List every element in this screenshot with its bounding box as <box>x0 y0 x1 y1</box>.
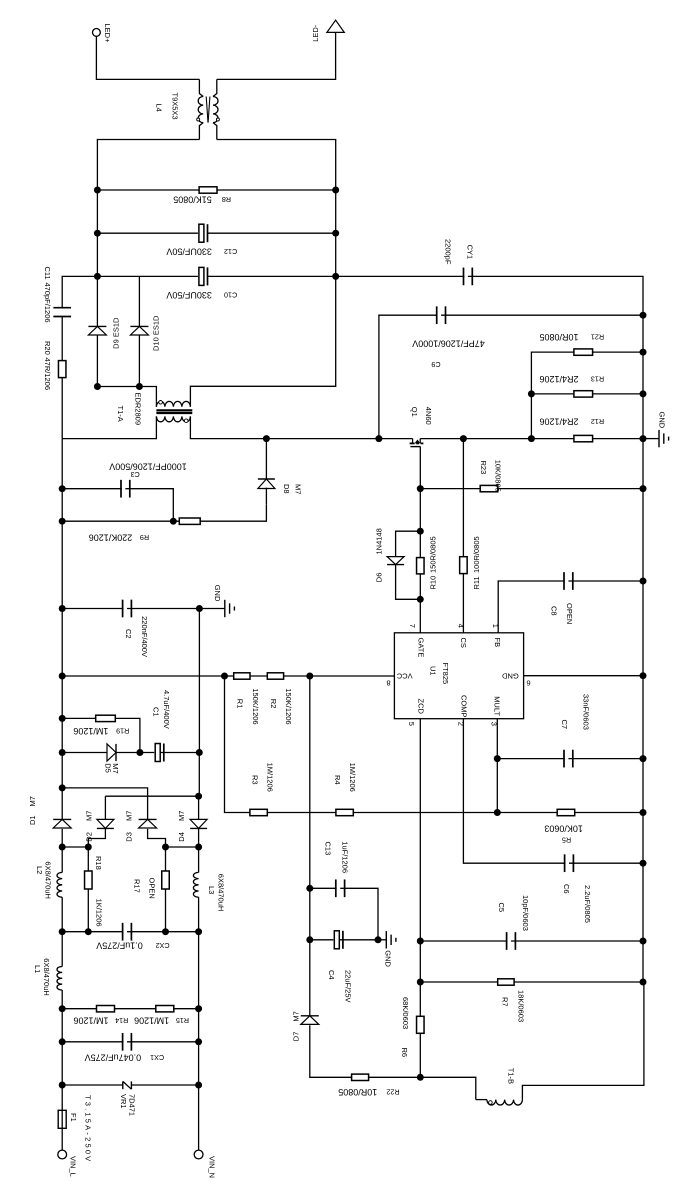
resistor R10 <box>417 558 425 574</box>
wire L2 bottom <box>61 897 63 932</box>
wire CX1 left <box>62 1041 127 1043</box>
wire N column seg2 <box>198 1009 200 1042</box>
wire L2 top <box>61 847 63 872</box>
junction <box>94 187 101 194</box>
junction <box>417 979 424 986</box>
svg-text:1K/1206: 1K/1206 <box>94 899 103 927</box>
wire left bus seg5 <box>61 609 63 677</box>
wire VR1 right <box>131 1084 198 1086</box>
wire D10 cathode <box>138 276 140 326</box>
wire gnd bus seg8 <box>642 863 644 941</box>
svg-text:R21: R21 <box>591 333 604 342</box>
wire gnd bus seg2 <box>642 439 644 489</box>
wire R13 left <box>531 393 574 395</box>
svg-text:CX2: CX2 <box>156 941 170 950</box>
wire R23 left <box>420 488 480 490</box>
wire right bus seg2 <box>335 233 337 276</box>
wire VCC column seg2 <box>309 888 311 940</box>
wire R14 left <box>62 1008 96 1010</box>
wire gnd bus seg7 <box>642 813 644 864</box>
wire C3 left <box>62 488 125 490</box>
svg-text:T1-B: T1-B <box>506 1068 515 1084</box>
polarized capacitor C4 <box>333 931 343 949</box>
svg-text:CX1: CX1 <box>150 1053 164 1062</box>
varistor VR1 <box>123 1081 132 1089</box>
wire gnd bus top <box>642 315 644 438</box>
svg-text:D6: D6 <box>375 573 384 583</box>
polarity dot T1-A primary <box>184 419 188 423</box>
wire T1-B lead <box>476 1099 487 1101</box>
resistor R15 <box>156 1006 174 1012</box>
svg-text:R3: R3 <box>251 775 260 785</box>
polarized capacitor C12 <box>198 224 208 242</box>
svg-text:L3: L3 <box>207 886 216 894</box>
svg-text:0.1uF/275V: 0.1uF/275V <box>96 941 143 951</box>
junction <box>59 605 66 612</box>
svg-text:6: 6 <box>526 678 530 687</box>
junction <box>306 936 313 943</box>
wire secondary left <box>97 387 156 402</box>
wire D7 cathode <box>309 940 311 1016</box>
wire L1 top <box>61 932 63 967</box>
wire LED- to L4 <box>217 32 336 79</box>
junction <box>196 605 203 612</box>
svg-text:4: 4 <box>457 624 466 628</box>
wire D6 top <box>396 531 421 556</box>
wire R1-R2 <box>250 675 267 677</box>
svg-text:C5: C5 <box>497 903 506 913</box>
resistor R7 <box>498 979 514 985</box>
svg-text:D3: D3 <box>125 832 134 842</box>
svg-text:D10 ES1D: D10 ES1D <box>152 315 161 351</box>
wire C4 right <box>340 939 378 941</box>
inductor L4 right winding <box>213 97 218 123</box>
svg-text:OPEN: OPEN <box>148 878 157 899</box>
svg-text:R5: R5 <box>562 836 571 845</box>
wire R8 right <box>217 189 336 191</box>
inductor L1 <box>57 967 62 991</box>
wire R18 top <box>87 847 89 871</box>
svg-text:330UF/50V: 330UF/50V <box>166 247 212 257</box>
diode D6 <box>387 557 404 565</box>
wire secondary right to bus <box>190 276 335 406</box>
wire R3 left <box>225 676 250 813</box>
svg-text:Q1: Q1 <box>410 407 419 417</box>
resistor R3 <box>250 809 267 815</box>
wire C1 right <box>160 752 199 754</box>
transformer T1-A primary winding <box>156 416 190 421</box>
wire VR1 left <box>62 1084 123 1086</box>
wire C5 right <box>511 940 643 942</box>
wire secondary left stub <box>155 401 157 407</box>
wire L4 to right output bus <box>217 140 336 191</box>
svg-text:5: 5 <box>407 722 416 726</box>
wire R19 left <box>62 717 95 719</box>
resistor R21 <box>574 349 593 355</box>
diode D1 <box>53 819 71 828</box>
capacitor C9 <box>437 306 446 324</box>
svg-text:6X8/470uH: 6X8/470uH <box>217 874 226 912</box>
terminal LED+ <box>93 29 101 37</box>
wire Q1 source rail <box>420 438 463 440</box>
wire L4 to left output bus <box>97 140 199 191</box>
svg-text:1M/1206: 1M/1206 <box>348 763 357 792</box>
inductor L3 <box>193 872 198 897</box>
svg-text:R15: R15 <box>176 1016 189 1025</box>
svg-text:VIN_N: VIN_N <box>208 1156 217 1178</box>
wire R22 right <box>369 1076 421 1078</box>
polarity dot L4 left <box>197 118 200 121</box>
junction <box>263 435 270 442</box>
svg-text:150K/1206: 150K/1206 <box>251 688 260 724</box>
core L4 <box>206 97 210 123</box>
wire gnd bus seg6 <box>642 759 644 813</box>
resistor R18 <box>85 871 93 889</box>
wire F1 column <box>61 1085 63 1150</box>
wire CX1 right <box>127 1041 199 1043</box>
junction <box>59 1082 66 1089</box>
wire R6 bottom <box>419 1033 421 1077</box>
wire C2 left <box>62 608 127 610</box>
capacitor C2 <box>123 600 132 618</box>
svg-text:M7: M7 <box>177 811 186 821</box>
svg-text:GND: GND <box>213 585 222 602</box>
junction <box>85 844 92 851</box>
svg-text:7: 7 <box>408 624 417 628</box>
svg-text:10K/0805: 10K/0805 <box>493 460 502 492</box>
junction <box>494 809 501 816</box>
svg-text:330UF/50V: 330UF/50V <box>166 290 212 300</box>
wire C9 left <box>379 315 441 438</box>
junction <box>136 383 143 390</box>
wire R18 bottom <box>87 889 89 932</box>
svg-text:4.7uF/400V: 4.7uF/400V <box>162 690 171 729</box>
svg-text:R11: R11 <box>472 576 481 589</box>
svg-text:VR1: VR1 <box>119 1094 128 1109</box>
svg-text:33nF/0603: 33nF/0603 <box>581 694 590 730</box>
polarity dot T1-B <box>489 1101 493 1105</box>
junction <box>640 755 647 762</box>
junction <box>417 1074 424 1081</box>
svg-text:R13: R13 <box>591 375 604 384</box>
wire R21 right <box>593 351 643 353</box>
wire GATE pin <box>419 599 421 633</box>
svg-text:10K/0603: 10K/0603 <box>544 823 583 833</box>
terminal VIN_L <box>58 1150 67 1159</box>
wire R15 right <box>174 1008 199 1010</box>
svg-text:R22: R22 <box>386 1088 399 1097</box>
junction <box>221 673 228 680</box>
svg-text:R20: R20 <box>43 341 52 355</box>
junction <box>136 749 143 756</box>
junction <box>460 435 467 442</box>
svg-text:M7: M7 <box>85 811 94 821</box>
svg-text:R4: R4 <box>333 775 342 785</box>
wire R17 bottom <box>165 889 167 932</box>
junction <box>375 936 382 943</box>
junction <box>59 844 66 851</box>
wire AC1 node <box>62 846 88 848</box>
capacitor CY1 <box>464 268 473 286</box>
junction <box>640 938 647 945</box>
core T1-A <box>156 410 192 413</box>
resistor R12 <box>574 435 593 441</box>
svg-text:8: 8 <box>386 678 390 687</box>
svg-text:FT825: FT825 <box>441 663 450 685</box>
wire C1 left <box>140 752 160 754</box>
junction <box>306 885 313 892</box>
wire R8 left <box>97 189 200 191</box>
diode D9 <box>88 326 106 335</box>
wire sense riser seg1 <box>530 394 532 439</box>
svg-text:C6: C6 <box>562 884 571 894</box>
wire R3-R4 <box>267 812 336 814</box>
capacitor C8 <box>564 572 573 590</box>
svg-text:L4: L4 <box>154 104 163 112</box>
svg-text:C13: C13 <box>324 842 333 856</box>
capacitor CX1 <box>123 1033 132 1051</box>
svg-text:R6: R6 <box>400 1048 409 1058</box>
ground vcc <box>378 931 396 948</box>
wire L3 top <box>198 847 200 872</box>
wire left bus seg1 <box>96 190 98 233</box>
diode D8 <box>258 479 275 489</box>
wire R4 right <box>353 812 497 814</box>
junction <box>332 187 339 194</box>
capacitor C13 <box>336 879 345 897</box>
polarized capacitor C10 <box>198 267 208 285</box>
junction <box>162 928 169 935</box>
wire gate seg2 <box>419 489 421 532</box>
wire left bus seg4b <box>61 521 63 608</box>
junction <box>195 844 202 851</box>
svg-text:470pF/1206: 470pF/1206 <box>43 283 52 323</box>
svg-text:GND: GND <box>658 412 667 429</box>
op-amp U1 FT825 box <box>394 633 523 719</box>
wire VCC pin <box>310 675 395 677</box>
svg-text:47R/1206: 47R/1206 <box>43 358 52 391</box>
wire D4 anode <box>198 796 200 819</box>
junction <box>59 1038 66 1045</box>
svg-text:2200pF: 2200pF <box>443 239 452 265</box>
resistor R23 <box>480 485 498 491</box>
wire R1 left <box>62 675 224 677</box>
wire D7 anode to R22 <box>310 1025 352 1077</box>
wire GND pin <box>524 675 643 677</box>
junction <box>640 312 647 319</box>
wire gnd column seg1 <box>198 609 200 753</box>
svg-text:R2: R2 <box>269 699 278 709</box>
svg-text:1N4148: 1N4148 <box>375 528 384 554</box>
resistor R6 <box>417 1016 425 1033</box>
svg-text:M7: M7 <box>125 811 134 821</box>
wire CY1 left <box>336 275 468 277</box>
wire R21 left <box>531 352 574 394</box>
svg-text:EDR2809: EDR2809 <box>133 393 142 426</box>
svg-text:1M/1206: 1M/1206 <box>266 763 275 792</box>
polarized capacitor C1 <box>154 744 164 762</box>
wire D2 cathode <box>88 828 105 847</box>
svg-text:R9: R9 <box>140 533 149 542</box>
svg-text:C12: C12 <box>224 247 237 256</box>
terminal VIN_N <box>194 1150 203 1159</box>
junction <box>528 435 535 442</box>
svg-text:1M/1206: 1M/1206 <box>73 1015 108 1025</box>
junction <box>640 485 647 492</box>
wire primary right drain rail <box>190 416 412 438</box>
junction <box>195 1038 202 1045</box>
wire gnd bus seg5 <box>642 676 644 759</box>
wire R23 right <box>498 488 643 490</box>
wire L4 left lead bottom <box>199 123 203 140</box>
junction <box>195 1082 202 1089</box>
resistor R1 <box>234 673 250 679</box>
svg-text:U1: U1 <box>429 666 438 676</box>
svg-text:R10: R10 <box>429 576 438 590</box>
svg-text:2R4/1206: 2R4/1206 <box>539 374 578 384</box>
svg-text:R14: R14 <box>115 1016 128 1025</box>
svg-text:GATE: GATE <box>417 638 426 658</box>
wire AC2 node <box>166 846 199 848</box>
junction <box>170 518 177 525</box>
svg-text:M7: M7 <box>294 484 303 494</box>
svg-text:C8: C8 <box>549 606 558 616</box>
wire N column seg3 <box>198 1042 200 1085</box>
svg-text:C2: C2 <box>124 629 133 639</box>
resistor R4 <box>336 809 353 815</box>
svg-text:2R4/1206: 2R4/1206 <box>539 417 578 427</box>
wire C7 right <box>568 758 643 760</box>
wire C6 right <box>569 862 643 864</box>
junction <box>59 715 66 722</box>
svg-text:6X8/470uH: 6X8/470uH <box>42 958 51 996</box>
resistor R2 <box>267 673 283 679</box>
wire D5 right <box>117 752 140 754</box>
wire D4 cathode <box>198 828 200 847</box>
svg-text:GND: GND <box>384 950 393 967</box>
wire bridge minus link <box>105 795 198 797</box>
wire L4 left lead top <box>199 79 203 96</box>
svg-text:1M/1206: 1M/1206 <box>134 1015 169 1025</box>
wire L4 right lead bottom <box>213 123 217 140</box>
junction <box>332 273 339 280</box>
wire R5 right <box>575 812 643 814</box>
svg-text:47PF/1206/1000V: 47PF/1206/1000V <box>412 339 485 349</box>
wire L1 bottom <box>61 990 63 1009</box>
svg-text:L2: L2 <box>35 866 44 874</box>
wire R9 right to D8 <box>200 505 266 522</box>
wire R19 right <box>115 718 140 752</box>
wire R6 top <box>419 982 421 1016</box>
junction <box>332 230 339 237</box>
svg-text:10pF/0603: 10pF/0603 <box>521 895 530 931</box>
wire D9 anode <box>96 335 98 387</box>
junction <box>162 844 169 851</box>
svg-text:R18: R18 <box>94 856 103 870</box>
junction <box>59 673 66 680</box>
svg-text:GND: GND <box>501 671 518 680</box>
wire R11 top <box>462 439 464 557</box>
wire left bus seg7 <box>61 718 63 752</box>
junction <box>59 518 66 525</box>
wire left bus seg2 <box>96 233 98 276</box>
wire LED+ to L4 <box>96 36 199 79</box>
svg-text:C11: C11 <box>43 267 52 280</box>
resistor R19 <box>96 715 116 721</box>
svg-text:150K/1206: 150K/1206 <box>284 688 293 724</box>
svg-text:CY1: CY1 <box>466 245 475 260</box>
wire R13 right <box>593 393 643 395</box>
svg-text:R8: R8 <box>222 195 231 204</box>
ground bulk <box>199 600 234 617</box>
junction <box>195 1005 202 1012</box>
wire R7 right <box>514 981 643 983</box>
wire right bus seg1 <box>335 190 337 233</box>
resistor R11 <box>460 557 468 574</box>
junction <box>195 793 202 800</box>
wire gnd column seg2 <box>198 753 200 797</box>
svg-text:L1: L1 <box>33 965 42 973</box>
inductor L4 left winding <box>198 97 203 123</box>
wire CX2 right <box>127 931 199 933</box>
junction <box>85 928 92 935</box>
resistor R20 <box>58 361 65 378</box>
wire left bus seg10 <box>61 1042 63 1085</box>
diode D7 <box>301 1016 319 1025</box>
junction <box>640 860 647 867</box>
svg-text:68K/0603: 68K/0603 <box>401 997 410 1029</box>
wire R10 top <box>419 531 421 557</box>
junction <box>640 435 647 442</box>
wire C13 left <box>310 887 340 889</box>
svg-text:MULT: MULT <box>493 696 502 716</box>
wire T1-B left <box>420 1077 476 1099</box>
capacitor C3 <box>121 480 130 498</box>
wire R5 left <box>497 812 557 814</box>
capacitor C7 <box>564 750 573 768</box>
wire C5 left <box>420 940 511 942</box>
svg-text:D8: D8 <box>282 484 291 494</box>
wire CS pin <box>462 574 464 633</box>
svg-text:R1: R1 <box>235 699 244 709</box>
wire CY1 right to gnd bus <box>468 276 643 315</box>
svg-text:LED-: LED- <box>311 24 320 42</box>
svg-text:D1: D1 <box>28 815 37 825</box>
wire MULT to divider <box>496 759 498 813</box>
wire D3 anode <box>148 829 166 847</box>
resistor R13 <box>574 391 593 397</box>
capacitor C5 <box>507 932 516 950</box>
wire L3 bottom <box>198 897 200 932</box>
resistor R17 <box>162 871 170 889</box>
junction <box>417 485 424 492</box>
svg-text:18K/0603: 18K/0603 <box>516 990 525 1022</box>
wire C8 right <box>568 580 643 582</box>
svg-text:10R/0805: 10R/0805 <box>338 1087 377 1097</box>
wire CX2 left <box>62 931 127 933</box>
junction <box>640 979 647 986</box>
wire C13 right <box>340 888 378 940</box>
wire left bus seg6 <box>61 676 63 718</box>
wire COMP to C6 <box>463 719 569 864</box>
svg-text:C1: C1 <box>151 707 160 717</box>
transformer T1-A secondary winding <box>156 401 190 406</box>
capacitor C11 <box>53 308 71 317</box>
wire R10 bottom <box>419 574 421 599</box>
resistor R5 <box>557 809 575 815</box>
svg-text:VCC: VCC <box>396 671 412 680</box>
svg-text:D9 ES1D: D9 ES1D <box>112 317 121 349</box>
